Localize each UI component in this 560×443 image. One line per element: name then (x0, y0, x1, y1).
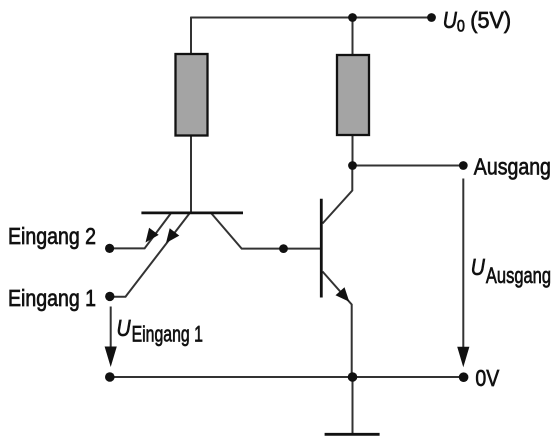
svg-text:U: U (117, 315, 132, 341)
svg-text:U: U (471, 254, 486, 280)
svg-text:Ausgang: Ausgang (486, 264, 551, 289)
svg-text:Eingang 1: Eingang 1 (132, 323, 203, 347)
svg-text:0V: 0V (475, 365, 500, 391)
svg-text:U: U (443, 7, 458, 33)
svg-text:Ausgang: Ausgang (474, 154, 551, 180)
svg-text:Eingang 1: Eingang 1 (8, 286, 96, 312)
svg-text:Eingang 2: Eingang 2 (8, 223, 96, 249)
svg-text:0: 0 (457, 18, 465, 36)
svg-text:(5V): (5V) (470, 7, 511, 33)
